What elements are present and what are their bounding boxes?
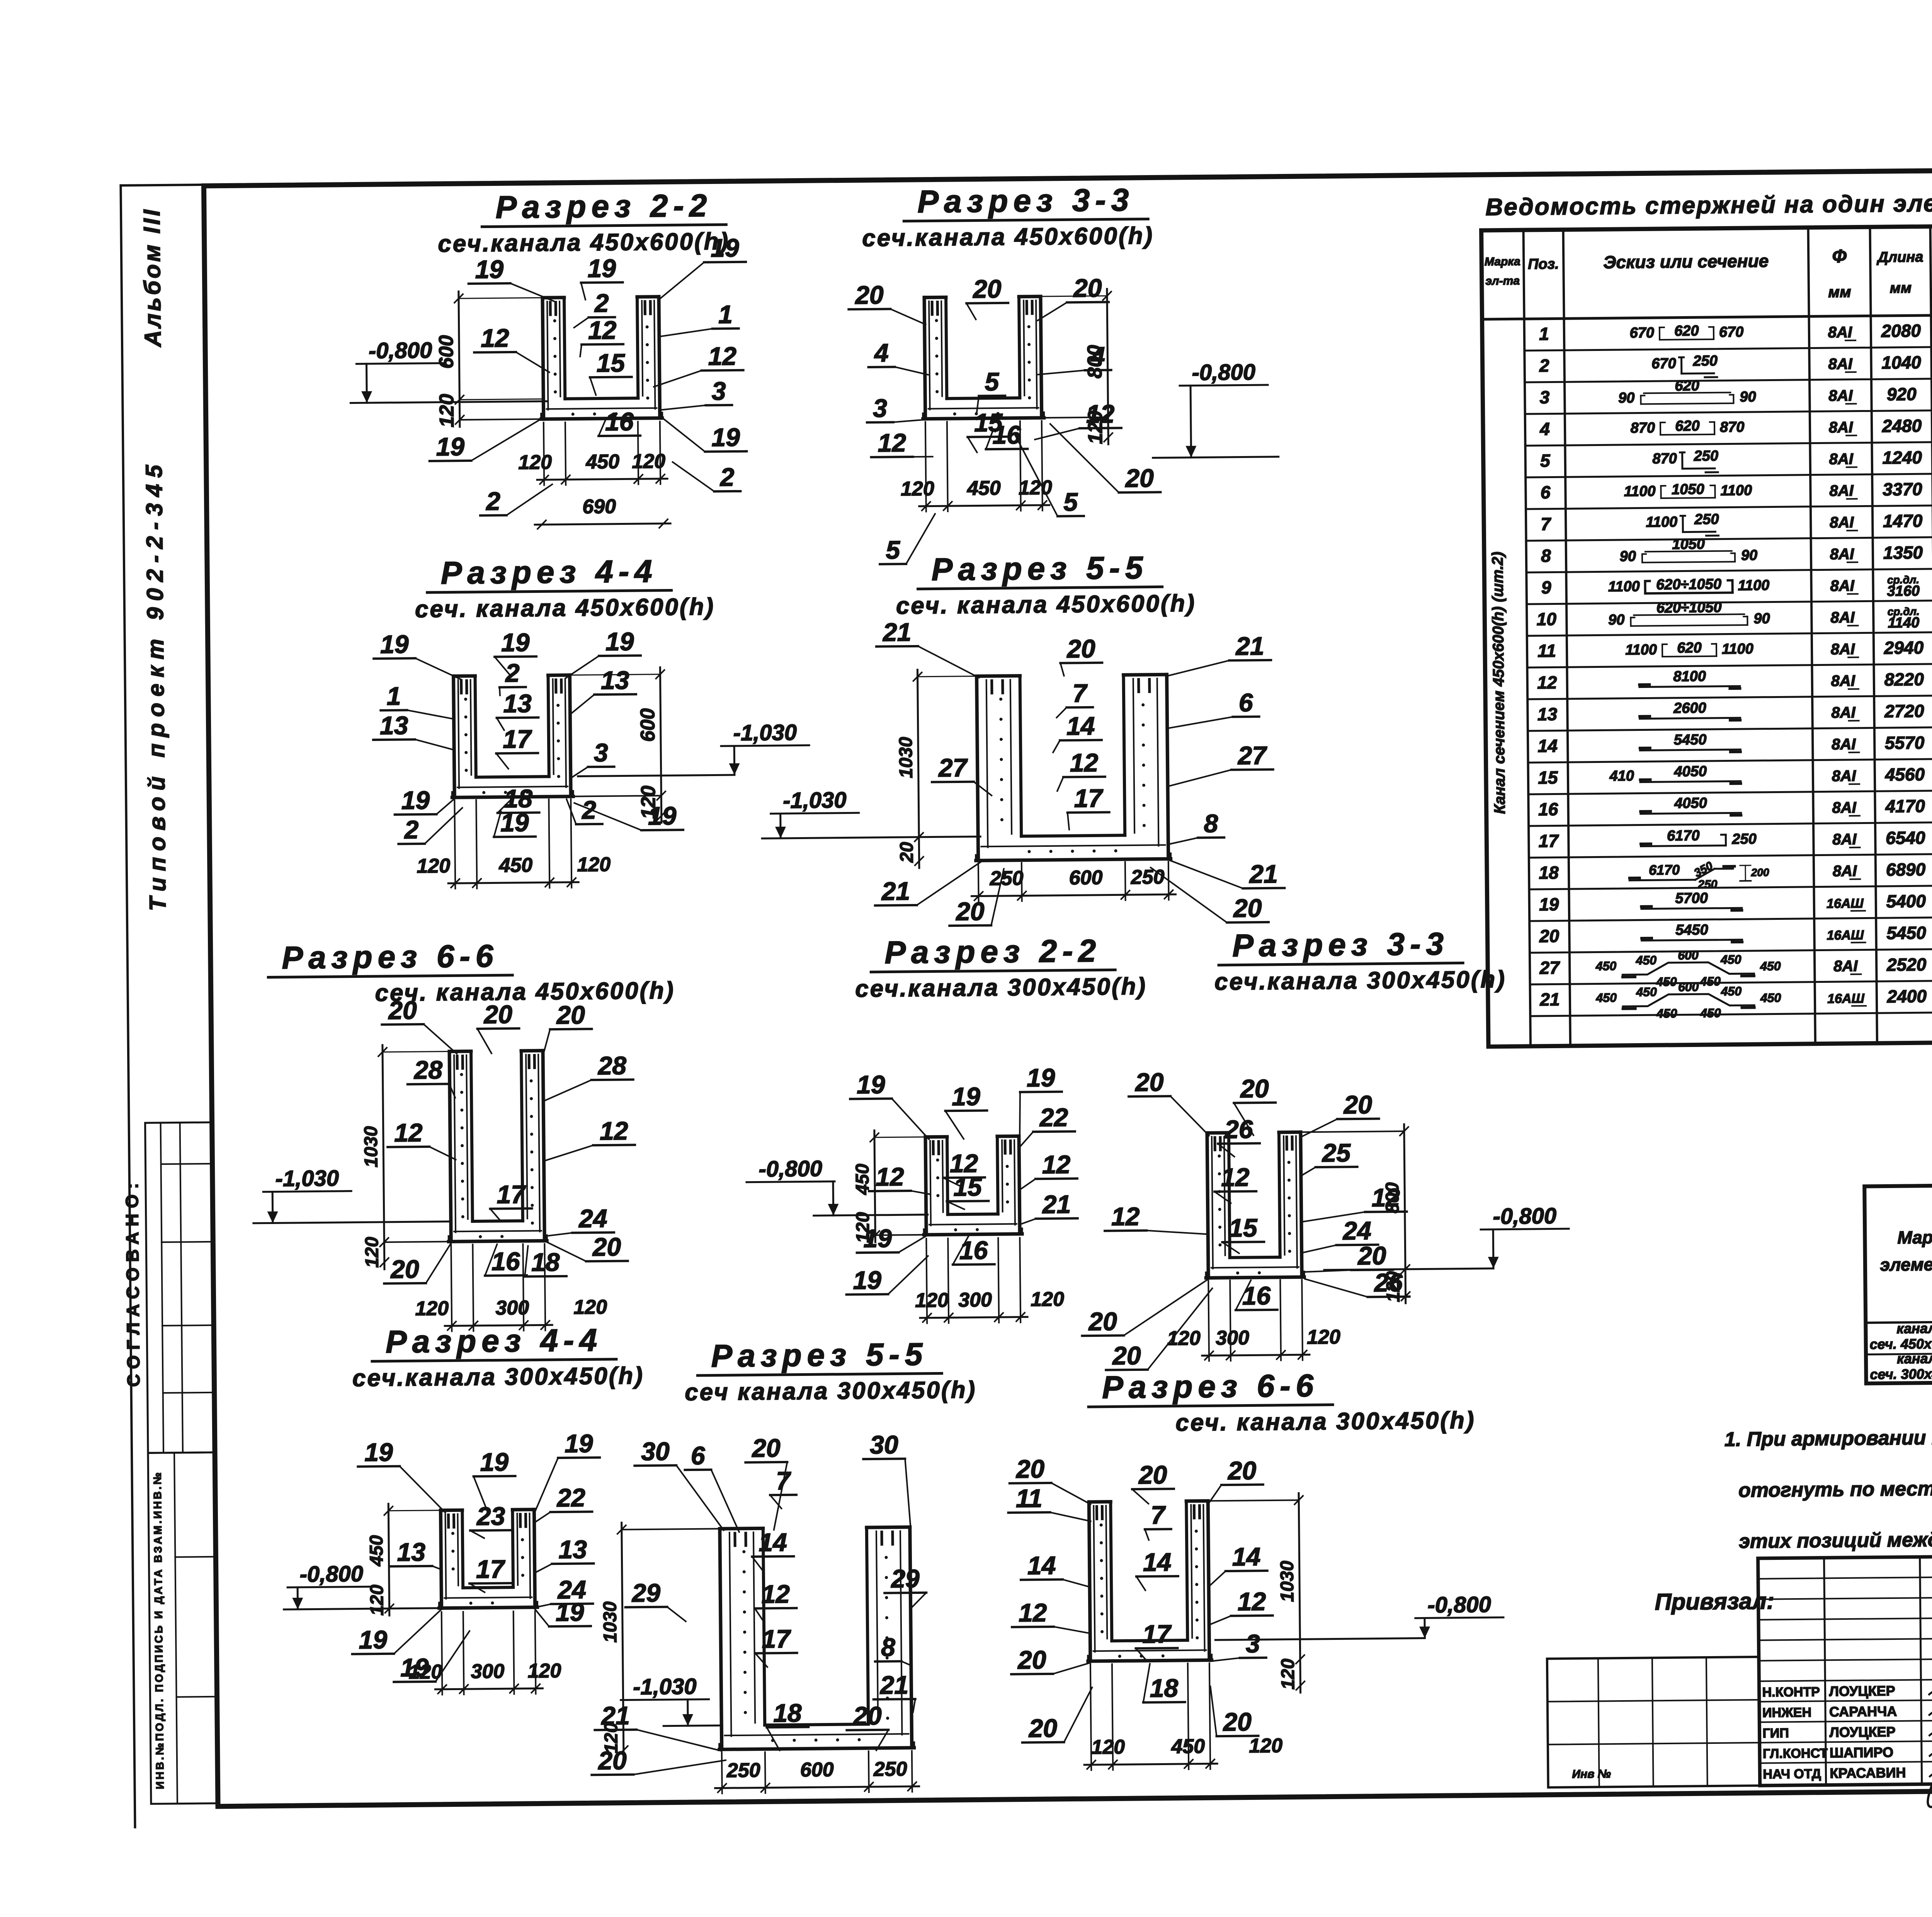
svg-text:8АI: 8АI — [1830, 546, 1855, 563]
svg-text:6170: 6170 — [1667, 827, 1700, 844]
svg-text:сеч.канала 450х600(h): сеч.канала 450х600(h) — [438, 228, 730, 257]
svg-text:19: 19 — [605, 627, 634, 656]
svg-text:21: 21 — [1041, 1190, 1071, 1219]
svg-text:5: 5 — [886, 535, 901, 564]
svg-text:12: 12 — [588, 316, 617, 345]
svg-text:3: 3 — [594, 738, 608, 767]
svg-text:17: 17 — [1539, 831, 1560, 851]
svg-text:300: 300 — [1216, 1326, 1249, 1349]
svg-text:сеч. 450х600: сеч. 450х600 — [1870, 1336, 1932, 1352]
svg-text:11: 11 — [1016, 1484, 1043, 1513]
svg-text:5450: 5450 — [1675, 922, 1708, 938]
svg-text:ЛОУЦКЕР: ЛОУЦКЕР — [1829, 1683, 1895, 1699]
svg-text:20: 20 — [751, 1433, 781, 1462]
svg-text:21: 21 — [1235, 632, 1264, 661]
svg-text:23: 23 — [476, 1502, 505, 1531]
svg-text:17: 17 — [503, 725, 532, 754]
svg-text:3: 3 — [1539, 387, 1549, 407]
svg-text:21: 21 — [1248, 860, 1278, 889]
svg-text:8АI: 8АI — [1833, 958, 1858, 975]
svg-text:Инв №: Инв № — [1572, 1767, 1611, 1781]
svg-text:4: 4 — [1539, 419, 1550, 439]
svg-text:120: 120 — [415, 1297, 449, 1320]
svg-text:19: 19 — [480, 1447, 509, 1476]
svg-text:25: 25 — [1321, 1138, 1351, 1167]
svg-text:Поз.: Поз. — [1528, 256, 1559, 272]
svg-text:сеч. канала 300х450(h): сеч. канала 300х450(h) — [1175, 1407, 1476, 1436]
svg-text:450: 450 — [1699, 974, 1721, 988]
svg-text:450: 450 — [1595, 959, 1617, 973]
svg-text:13: 13 — [601, 666, 629, 695]
svg-text:27: 27 — [1539, 957, 1560, 977]
svg-text:3370: 3370 — [1883, 479, 1922, 499]
svg-text:300: 300 — [958, 1289, 992, 1311]
svg-text:600: 600 — [1678, 980, 1699, 994]
svg-text:19: 19 — [1027, 1063, 1055, 1092]
svg-text:8АI: 8АI — [1828, 356, 1853, 373]
svg-text:20: 20 — [592, 1233, 621, 1262]
svg-text:250: 250 — [726, 1759, 760, 1782]
svg-text:12: 12 — [878, 428, 906, 457]
svg-text:12: 12 — [761, 1580, 790, 1609]
svg-text:1100: 1100 — [1624, 483, 1656, 500]
svg-text:1100: 1100 — [1722, 641, 1753, 657]
svg-text:19: 19 — [364, 1438, 393, 1467]
svg-text:сеч.канала 300х450(h): сеч.канала 300х450(h) — [352, 1362, 645, 1392]
svg-text:120: 120 — [527, 1660, 561, 1682]
svg-text:200: 200 — [1751, 867, 1769, 878]
svg-text:19: 19 — [501, 628, 530, 657]
svg-text:670: 670 — [1651, 356, 1676, 372]
svg-text:90: 90 — [1619, 548, 1636, 565]
svg-text:8АI: 8АI — [1832, 736, 1856, 753]
svg-text:14: 14 — [759, 1528, 787, 1557]
svg-text:120: 120 — [573, 1296, 607, 1319]
svg-text:Эскиз или сечение: Эскиз или сечение — [1603, 251, 1769, 272]
svg-text:эл-та: эл-та — [1485, 274, 1520, 288]
svg-text:20: 20 — [483, 1000, 512, 1029]
svg-text:-0,800: -0,800 — [1192, 359, 1255, 385]
svg-text:13: 13 — [380, 711, 408, 740]
svg-text:19: 19 — [556, 1597, 584, 1626]
svg-text:12: 12 — [1086, 399, 1115, 428]
svg-text:8: 8 — [881, 1633, 896, 1661]
svg-text:450: 450 — [1636, 953, 1657, 967]
svg-text:Разрез 6-6: Разрез 6-6 — [282, 938, 499, 976]
svg-text:ГЛ.КОНСТ: ГЛ.КОНСТ — [1763, 1746, 1828, 1761]
svg-text:1100: 1100 — [1720, 482, 1752, 499]
svg-text:1. При армировании каналов сте: 1. При армировании каналов стержни поз. … — [1725, 1424, 1932, 1451]
svg-text:Марка: Марка — [1485, 255, 1520, 268]
svg-text:ЛОУЦКЕР: ЛОУЦКЕР — [1829, 1724, 1895, 1740]
svg-text:1100: 1100 — [1608, 579, 1640, 595]
svg-text:сеч. 300х450: сеч. 300х450 — [1870, 1366, 1932, 1382]
svg-text:1470: 1470 — [1883, 511, 1923, 531]
svg-text:4: 4 — [874, 338, 889, 367]
svg-text:24: 24 — [578, 1204, 607, 1233]
svg-text:690: 690 — [582, 495, 616, 518]
svg-text:6890: 6890 — [1886, 859, 1926, 880]
svg-text:1240: 1240 — [1882, 447, 1922, 468]
svg-text:ШАПИРО: ШАПИРО — [1830, 1744, 1893, 1760]
svg-text:16: 16 — [959, 1236, 988, 1265]
svg-text:17: 17 — [476, 1554, 506, 1583]
svg-text:250: 250 — [1131, 866, 1165, 889]
svg-text:19: 19 — [401, 786, 430, 815]
svg-text:ГИП: ГИП — [1762, 1726, 1789, 1741]
svg-text:сеч. канала 450х600(h): сеч. канала 450х600(h) — [896, 590, 1196, 620]
svg-text:5: 5 — [1540, 451, 1551, 471]
svg-text:20: 20 — [1028, 1714, 1057, 1743]
svg-text:8АI: 8АI — [1833, 863, 1857, 880]
svg-text:14: 14 — [1537, 735, 1558, 756]
svg-text:19: 19 — [711, 423, 740, 452]
svg-text:90: 90 — [1608, 612, 1625, 628]
svg-text:26: 26 — [1373, 1268, 1403, 1297]
svg-text:-1,030: -1,030 — [783, 787, 847, 813]
svg-text:620÷1050: 620÷1050 — [1656, 599, 1722, 616]
svg-text:КРАСАВИН: КРАСАВИН — [1830, 1765, 1906, 1781]
svg-text:НАЧ ОТД: НАЧ ОТД — [1763, 1767, 1821, 1782]
svg-text:16: 16 — [1538, 799, 1558, 819]
svg-text:450: 450 — [1721, 984, 1742, 998]
svg-text:Ф: Ф — [1832, 246, 1847, 267]
svg-text:120: 120 — [367, 1585, 388, 1616]
svg-text:сеч канала 300х450(h): сеч канала 300х450(h) — [685, 1377, 977, 1406]
svg-text:17: 17 — [762, 1624, 791, 1653]
svg-text:2080: 2080 — [1881, 320, 1921, 341]
svg-text:8220: 8220 — [1884, 669, 1924, 690]
svg-text:27: 27 — [938, 753, 968, 782]
svg-text:450: 450 — [585, 451, 619, 473]
svg-text:1100: 1100 — [1625, 642, 1657, 658]
svg-text:620: 620 — [1675, 378, 1699, 394]
svg-text:19: 19 — [863, 1224, 892, 1253]
svg-text:13: 13 — [397, 1537, 425, 1566]
svg-text:20: 20 — [852, 1701, 882, 1730]
svg-text:элемента: элемента — [1880, 1254, 1932, 1275]
svg-text:300: 300 — [471, 1660, 504, 1683]
svg-text:16АШ: 16АШ — [1827, 991, 1865, 1006]
svg-text:120: 120 — [518, 451, 552, 474]
svg-text:120: 120 — [632, 450, 665, 473]
svg-text:12: 12 — [1111, 1202, 1140, 1231]
svg-text:1100: 1100 — [1646, 514, 1677, 531]
svg-text:18: 18 — [1539, 862, 1559, 882]
svg-text:17: 17 — [497, 1180, 526, 1209]
svg-text:17: 17 — [1074, 784, 1104, 813]
svg-text:450: 450 — [1171, 1735, 1205, 1758]
svg-text:13: 13 — [558, 1535, 587, 1564]
svg-text:12: 12 — [1537, 672, 1557, 692]
svg-text:8АI: 8АI — [1831, 704, 1856, 722]
svg-text:19: 19 — [857, 1070, 885, 1099]
svg-text:5450: 5450 — [1886, 923, 1926, 943]
svg-text:5: 5 — [985, 367, 1000, 396]
svg-text:600: 600 — [800, 1759, 834, 1781]
svg-text:21: 21 — [879, 1670, 908, 1699]
svg-text:19: 19 — [359, 1625, 387, 1654]
svg-text:28: 28 — [413, 1056, 442, 1084]
svg-text:8АI: 8АI — [1832, 799, 1857, 817]
svg-text:20: 20 — [1343, 1090, 1372, 1119]
svg-text:20: 20 — [1227, 1456, 1257, 1485]
svg-text:1040: 1040 — [1881, 352, 1921, 373]
svg-text:16: 16 — [992, 420, 1021, 449]
svg-text:7: 7 — [776, 1466, 792, 1495]
svg-text:15: 15 — [1229, 1213, 1258, 1242]
svg-text:450: 450 — [498, 854, 532, 877]
svg-text:1030: 1030 — [896, 737, 917, 778]
svg-text:сеч.канала 300х450(h): сеч.канала 300х450(h) — [1214, 966, 1507, 996]
svg-text:11: 11 — [1537, 640, 1556, 661]
svg-text:20: 20 — [1357, 1241, 1386, 1270]
svg-text:3: 3 — [711, 376, 726, 405]
svg-text:26: 26 — [1224, 1115, 1253, 1144]
svg-text:8100: 8100 — [1673, 668, 1706, 685]
svg-text:-1,030: -1,030 — [633, 1674, 697, 1699]
svg-text:САРАНЧА: САРАНЧА — [1829, 1703, 1897, 1720]
svg-text:5450: 5450 — [1674, 732, 1707, 748]
svg-text:19: 19 — [400, 1653, 429, 1682]
svg-text:20: 20 — [1134, 1067, 1164, 1096]
svg-text:450: 450 — [1595, 991, 1617, 1004]
svg-text:19: 19 — [648, 801, 677, 830]
svg-text:12: 12 — [1371, 1183, 1400, 1212]
svg-text:19: 19 — [500, 808, 529, 837]
svg-text:20: 20 — [1088, 1307, 1117, 1336]
svg-text:20: 20 — [972, 274, 1002, 303]
svg-text:2: 2 — [485, 487, 501, 515]
svg-text:12: 12 — [708, 342, 736, 371]
svg-text:19: 19 — [587, 254, 616, 283]
svg-text:1: 1 — [1539, 324, 1549, 344]
svg-text:120: 120 — [577, 853, 611, 876]
svg-text:2400: 2400 — [1887, 986, 1927, 1006]
svg-text:1350: 1350 — [1883, 542, 1923, 563]
svg-text:19: 19 — [475, 255, 503, 284]
svg-text:120: 120 — [1307, 1326, 1340, 1348]
svg-text:5700: 5700 — [1675, 890, 1708, 907]
svg-text:8АI: 8АI — [1829, 451, 1854, 468]
svg-text:21: 21 — [1539, 989, 1560, 1009]
svg-text:20: 20 — [1539, 926, 1560, 946]
svg-text:2: 2 — [719, 463, 735, 491]
svg-text:2: 2 — [403, 815, 419, 844]
svg-text:6: 6 — [1239, 688, 1254, 717]
svg-text:Марка: Марка — [1897, 1227, 1932, 1248]
svg-text:12: 12 — [876, 1162, 904, 1191]
svg-text:8АI: 8АI — [1830, 577, 1855, 595]
svg-text:12: 12 — [394, 1118, 423, 1147]
svg-text:250: 250 — [1694, 448, 1719, 465]
svg-text:450: 450 — [1720, 952, 1742, 966]
svg-text:8АI: 8АI — [1828, 387, 1853, 405]
svg-text:450: 450 — [1636, 985, 1657, 999]
svg-text:2: 2 — [505, 659, 520, 687]
svg-text:10: 10 — [1537, 609, 1557, 629]
svg-text:19: 19 — [711, 233, 739, 262]
svg-text:СОГЛАСОВАНО:: СОГЛАСОВАНО: — [122, 1178, 144, 1387]
svg-text:Разрез 4-4: Разрез 4-4 — [440, 554, 658, 591]
svg-text:5570: 5570 — [1885, 732, 1925, 753]
svg-text:600: 600 — [636, 708, 659, 742]
svg-text:Привязал:: Привязал: — [1655, 1588, 1774, 1615]
svg-text:12: 12 — [600, 1116, 628, 1145]
svg-text:18: 18 — [531, 1248, 560, 1277]
svg-text:600: 600 — [1678, 948, 1699, 962]
svg-text:20: 20 — [1138, 1460, 1167, 1489]
svg-text:21: 21 — [881, 877, 910, 906]
svg-text:-0,800: -0,800 — [759, 1156, 822, 1182]
svg-text:20: 20 — [556, 1000, 585, 1029]
svg-text:19: 19 — [436, 432, 464, 461]
svg-text:20: 20 — [955, 897, 985, 926]
svg-text:28: 28 — [597, 1051, 626, 1080]
svg-text:90: 90 — [1753, 611, 1770, 627]
svg-text:22: 22 — [556, 1483, 585, 1512]
svg-text:5: 5 — [1063, 487, 1078, 516]
svg-text:24: 24 — [1342, 1216, 1371, 1245]
svg-text:Альбом III: Альбом III — [139, 207, 166, 348]
svg-text:Разрез 4-4: Разрез 4-4 — [386, 1323, 603, 1360]
svg-text:19: 19 — [565, 1429, 593, 1458]
svg-text:20: 20 — [388, 996, 417, 1025]
svg-text:8АI: 8АI — [1831, 641, 1855, 658]
svg-text:120: 120 — [901, 477, 934, 500]
svg-text:450: 450 — [366, 1535, 387, 1567]
svg-text:канал: канал — [1897, 1350, 1932, 1367]
svg-text:6: 6 — [690, 1441, 706, 1470]
svg-text:19: 19 — [853, 1266, 881, 1295]
svg-text:450: 450 — [967, 477, 1001, 500]
svg-text:1: 1 — [386, 682, 401, 710]
svg-text:Типовой проект 902-2-345: Типовой проект 902-2-345 — [141, 459, 171, 911]
svg-text:8АI: 8АI — [1831, 672, 1855, 690]
svg-text:13: 13 — [1537, 704, 1558, 724]
svg-text:17: 17 — [1142, 1619, 1172, 1648]
svg-text:6540: 6540 — [1886, 827, 1925, 848]
svg-text:Разрез 3-3: Разрез 3-3 — [1232, 926, 1449, 964]
svg-text:Разрез 5-5: Разрез 5-5 — [931, 550, 1148, 587]
svg-text:8АI: 8АI — [1830, 514, 1854, 531]
svg-text:16АШ: 16АШ — [1827, 928, 1864, 943]
svg-text:сеч.канала 450х600(h): сеч.канала 450х600(h) — [862, 222, 1154, 252]
svg-text:2520: 2520 — [1886, 954, 1927, 975]
svg-text:1050: 1050 — [1672, 536, 1705, 553]
svg-text:8: 8 — [1204, 809, 1218, 838]
svg-text:15: 15 — [953, 1172, 982, 1201]
svg-text:1050: 1050 — [1672, 481, 1704, 498]
svg-text:20: 20 — [597, 1746, 627, 1775]
svg-text:250: 250 — [990, 867, 1024, 890]
svg-text:20: 20 — [1073, 274, 1102, 303]
svg-text:14: 14 — [1232, 1542, 1260, 1571]
svg-text:90: 90 — [1741, 547, 1758, 564]
svg-text:7: 7 — [1151, 1500, 1167, 1529]
svg-text:15: 15 — [1538, 767, 1558, 787]
svg-text:15: 15 — [596, 348, 625, 377]
svg-text:8АI: 8АI — [1829, 482, 1854, 500]
svg-text:22: 22 — [1039, 1103, 1068, 1132]
svg-text:8АI: 8АI — [1832, 768, 1857, 785]
svg-text:Канал сечением 450х600(h) (шт: Канал сечением 450х600(h) (шт.2) — [1489, 552, 1509, 814]
svg-text:7: 7 — [1541, 514, 1551, 534]
svg-text:250: 250 — [873, 1758, 907, 1781]
svg-text:2: 2 — [581, 795, 597, 824]
svg-text:6170: 6170 — [1649, 862, 1680, 878]
svg-text:8АI: 8АI — [1832, 831, 1857, 848]
svg-text:18: 18 — [773, 1699, 802, 1728]
svg-text:20: 20 — [390, 1255, 419, 1284]
svg-text:12: 12 — [1070, 748, 1099, 777]
svg-text:120: 120 — [1278, 1658, 1299, 1690]
svg-text:4170: 4170 — [1885, 796, 1925, 816]
svg-text:Разрез 3-3: Разрез 3-3 — [917, 182, 1134, 220]
svg-text:20: 20 — [1233, 894, 1262, 923]
svg-text:-1,030: -1,030 — [733, 720, 797, 746]
svg-text:20: 20 — [1240, 1074, 1269, 1103]
svg-text:1140: 1140 — [1888, 615, 1919, 631]
svg-text:250: 250 — [1697, 878, 1718, 891]
svg-text:5400: 5400 — [1886, 891, 1926, 911]
svg-text:20: 20 — [1124, 464, 1154, 493]
svg-text:7: 7 — [1072, 679, 1088, 707]
svg-text:20: 20 — [896, 842, 917, 863]
svg-text:1030: 1030 — [600, 1601, 621, 1643]
svg-text:Разрез 6-6: Разрез 6-6 — [1102, 1368, 1319, 1405]
svg-text:29: 29 — [631, 1578, 660, 1607]
svg-text:14: 14 — [1066, 712, 1095, 741]
svg-text:20: 20 — [1112, 1341, 1141, 1370]
svg-text:19: 19 — [380, 630, 409, 659]
svg-text:20: 20 — [1017, 1645, 1046, 1674]
svg-text:2480: 2480 — [1882, 415, 1922, 436]
svg-text:16АШ: 16АШ — [1827, 896, 1864, 911]
svg-text:450: 450 — [1700, 1006, 1721, 1020]
svg-text:сеч.канала 300х450(h): сеч.канала 300х450(h) — [855, 973, 1147, 1003]
svg-text:3: 3 — [873, 394, 887, 422]
svg-text:12: 12 — [1019, 1598, 1047, 1627]
svg-text:4050: 4050 — [1674, 795, 1707, 812]
svg-text:канал: канал — [1896, 1320, 1932, 1336]
svg-text:20: 20 — [854, 281, 884, 310]
svg-text:20: 20 — [1015, 1454, 1044, 1483]
svg-text:14: 14 — [1027, 1551, 1056, 1580]
svg-text:6: 6 — [1540, 482, 1550, 502]
svg-text:620: 620 — [1674, 323, 1699, 339]
svg-text:16: 16 — [492, 1247, 520, 1276]
svg-text:Ведомость стержней на один эле: Ведомость стержней на один элемент. — [1485, 189, 1932, 221]
svg-text:90: 90 — [1740, 389, 1756, 405]
svg-text:120: 120 — [915, 1289, 949, 1312]
svg-text:3160: 3160 — [1887, 583, 1920, 599]
svg-text:12: 12 — [1042, 1150, 1071, 1179]
svg-text:-0,800: -0,800 — [1493, 1203, 1556, 1229]
svg-text:-0,800: -0,800 — [1427, 1592, 1491, 1617]
svg-text:670: 670 — [1719, 324, 1744, 340]
svg-text:450: 450 — [1656, 975, 1677, 989]
svg-text:620÷1050: 620÷1050 — [1656, 576, 1721, 593]
svg-text:12: 12 — [481, 323, 509, 352]
svg-text:450: 450 — [1760, 991, 1781, 1004]
svg-text:4: 4 — [1090, 342, 1105, 370]
svg-text:9: 9 — [1541, 577, 1551, 598]
svg-text:8АI: 8АI — [1830, 609, 1855, 627]
svg-text:8: 8 — [1541, 546, 1551, 566]
svg-text:сеч. канала 450х600(h): сеч. канала 450х600(h) — [375, 977, 675, 1006]
svg-text:4560: 4560 — [1885, 764, 1925, 785]
